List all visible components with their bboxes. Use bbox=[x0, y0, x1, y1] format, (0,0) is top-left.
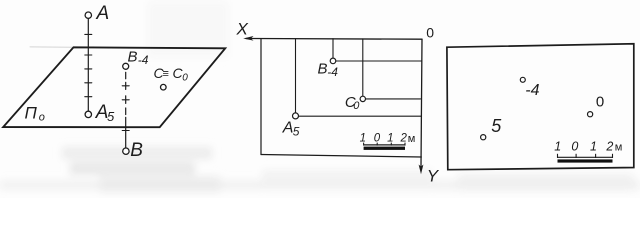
svg-text:0: 0 bbox=[182, 72, 188, 83]
svg-text:0: 0 bbox=[353, 100, 360, 112]
svg-text:1: 1 bbox=[554, 139, 561, 153]
svg-text:0: 0 bbox=[596, 93, 604, 110]
svg-text:-4: -4 bbox=[327, 65, 338, 79]
svg-text:2: 2 bbox=[605, 139, 613, 153]
svg-text:B: B bbox=[128, 49, 138, 66]
svg-text:≡: ≡ bbox=[163, 68, 169, 80]
svg-text:-4: -4 bbox=[138, 53, 149, 67]
svg-text:2: 2 bbox=[399, 133, 407, 145]
svg-text:B: B bbox=[130, 140, 143, 161]
svg-text:A: A bbox=[96, 3, 110, 24]
svg-text:1: 1 bbox=[590, 139, 597, 153]
svg-text:o: o bbox=[39, 112, 45, 124]
svg-text:1: 1 bbox=[360, 133, 366, 145]
svg-text:5: 5 bbox=[491, 116, 502, 136]
svg-text:5: 5 bbox=[293, 124, 300, 138]
svg-text:0: 0 bbox=[426, 25, 434, 41]
svg-text:м: м bbox=[615, 142, 623, 154]
svg-text:м: м bbox=[408, 133, 416, 145]
svg-text:X: X bbox=[236, 19, 249, 38]
svg-text:-4: -4 bbox=[525, 82, 539, 99]
svg-text:П: П bbox=[25, 104, 38, 123]
svg-text:0: 0 bbox=[571, 139, 578, 153]
svg-text:1: 1 bbox=[387, 133, 393, 145]
svg-text:B: B bbox=[318, 60, 328, 77]
svg-text:0: 0 bbox=[374, 133, 381, 145]
svg-text:A: A bbox=[282, 119, 294, 136]
svg-text:Y: Y bbox=[427, 167, 440, 186]
svg-text:5: 5 bbox=[107, 109, 115, 124]
